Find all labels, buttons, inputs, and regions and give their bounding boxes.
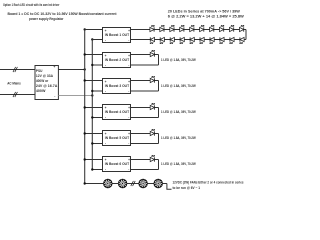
svg-text:1 LED @ 1.8A, 39V, 70.2W: 1 LED @ 1.8A, 39V, 70.2W [161, 110, 196, 114]
LED D17 string row 2 [210, 37, 215, 43]
LED D14 string row 2 [180, 37, 185, 43]
svg-text:+: + [105, 132, 107, 136]
LED D8 string row 1 [220, 25, 225, 31]
svg-text:1 LED @ 1.8A, 39V, 70.2W: 1 LED @ 1.8A, 39V, 70.2W [161, 136, 196, 140]
boost converter U6 box [103, 157, 131, 172]
boost converter U4 box [103, 105, 131, 120]
LED D1 string row 1 [150, 25, 155, 31]
svg-text:-: - [105, 39, 106, 43]
svg-text:AC Mains: AC Mains [7, 81, 21, 85]
LED D5 string row 1 [190, 25, 195, 31]
svg-text:-: - [128, 116, 129, 120]
wire bus+ to fan row [85, 183, 167, 185]
svg-text:Option 1 Each LED circuit with: Option 1 Each LED circuit with its own l… [3, 3, 60, 7]
svg-text:+: + [53, 65, 55, 69]
svg-text:-: - [128, 168, 129, 172]
junction boost 4 - stub [91, 116, 93, 118]
wire bus+ stub to boost 3 IN+ [85, 80, 103, 82]
svg-text:1 LED @ 1.8A, 39V, 70.2W: 1 LED @ 1.8A, 39V, 70.2W [161, 58, 196, 62]
svg-text:+: + [105, 29, 107, 33]
boost converter U2 box [103, 53, 131, 68]
wire LED string row 2 back to boost 1 OUT- [131, 39, 247, 41]
LED D21 [150, 50, 155, 56]
junction boost 2 + stub [84, 53, 86, 55]
wire bus- stub to boost 4 IN- [92, 117, 102, 119]
LED D23 [150, 103, 155, 109]
junction boost 6 - stub [91, 168, 93, 170]
junction PSU+ on bus [84, 68, 86, 70]
LED D19 string row 2 [230, 37, 235, 43]
wire bus- stub to boost 6 IN- [92, 169, 102, 171]
LED D15 string row 2 [190, 37, 195, 43]
svg-text:+: + [105, 158, 107, 162]
svg-text:IN Boost 4 OUT: IN Boost 4 OUT [105, 110, 129, 114]
wire boost 3 OUT+ to LED [131, 80, 159, 82]
svg-text:+: + [105, 80, 107, 84]
junction boost 5 - stub [91, 142, 93, 144]
wire LED return vertical [158, 108, 160, 118]
wire PSU + output to bus [58, 69, 84, 71]
svg-text:to be run @ 6V ~ 1: to be run @ 6V ~ 1 [173, 186, 201, 190]
junction boost 3 + stub [84, 79, 86, 81]
wire LED return to boost 6 OUT- [131, 169, 159, 171]
wire boost 6 OUT+ to LED [131, 159, 159, 161]
svg-text:power supply Regulator: power supply Regulator [29, 17, 64, 21]
wire LED return vertical [158, 134, 160, 144]
junction boost 5 + stub [84, 132, 86, 134]
svg-text:-: - [128, 39, 129, 43]
svg-text:-: - [54, 94, 55, 98]
svg-text:-: - [105, 168, 106, 172]
bus + vertical line [84, 30, 86, 184]
LED D3 string row 1 [170, 25, 175, 31]
svg-text:IN Boost 1 OUT: IN Boost 1 OUT [105, 33, 129, 37]
PSU power supply box [35, 65, 58, 100]
boost converter U3 box [103, 79, 131, 94]
junction bus+ top corner [84, 28, 86, 30]
wire PSU - output to bus (gray) [58, 95, 92, 97]
svg-text:6 @ 2.2W = 13.2W + 14 @ 1.84W: 6 @ 2.2W = 13.2W + 14 @ 1.84W = 25.8W [168, 15, 245, 19]
fan M4 [154, 179, 163, 188]
wire LED return to boost 5 OUT- [131, 143, 159, 145]
svg-text:-: - [128, 64, 129, 68]
break symbol on AC top wire [13, 67, 16, 72]
junction boost 6 + stub [84, 158, 86, 160]
svg-text:12V @ 33A: 12V @ 33A [36, 74, 54, 78]
wire boost 1 OUT+ to LED string row 1 [131, 29, 247, 31]
wire LED return vertical [158, 160, 160, 170]
wire LED return to boost 4 OUT- [131, 117, 159, 119]
svg-text:+: + [128, 132, 130, 136]
fan M2 [118, 179, 127, 188]
LED D9 string row 1 [230, 25, 235, 31]
junction boost 2 - stub [91, 64, 93, 66]
wire bus+ stub to boost 1 IN+ [85, 29, 103, 31]
wire bus- stub to boost 2 IN- [92, 64, 102, 66]
svg-text:-: - [128, 142, 129, 146]
wire LED return vertical [158, 55, 160, 66]
svg-text:400W or: 400W or [36, 79, 49, 83]
junction PSU- on bus [91, 94, 93, 96]
svg-text:IN Boost 2 OUT: IN Boost 2 OUT [105, 58, 129, 62]
LED D24 [150, 129, 155, 135]
fan M1 [103, 179, 112, 188]
bus - vertical line [91, 40, 93, 170]
LED D4 string row 1 [180, 25, 185, 31]
svg-text:-: - [105, 142, 106, 146]
LED D22 [150, 76, 155, 82]
wire boost 5 OUT+ to LED [131, 133, 159, 135]
wire bus+ stub to boost 2 IN+ [85, 54, 103, 56]
svg-text:+: + [128, 106, 130, 110]
svg-text:IN Boost 5 OUT: IN Boost 5 OUT [105, 136, 129, 140]
junction boost 4 + stub [84, 106, 86, 108]
svg-text:24V @ 16.7A: 24V @ 16.7A [36, 84, 58, 88]
svg-text:400W: 400W [36, 89, 46, 93]
wire boost 2 OUT+ to LED [131, 54, 159, 56]
svg-text:+: + [105, 106, 107, 110]
svg-text:+: + [105, 54, 107, 58]
wire bus- stub to boost 5 IN- [92, 143, 102, 145]
LED D6 string row 1 [200, 25, 205, 31]
svg-text:-: - [128, 90, 129, 94]
LED D13 string row 2 [170, 37, 175, 43]
fan M3 [138, 179, 147, 188]
wire boost 4 OUT+ to LED [131, 107, 159, 109]
svg-text:IN Boost 6 OUT: IN Boost 6 OUT [105, 162, 129, 166]
wire LED return vertical [158, 81, 160, 92]
LED D12 string row 2 [160, 37, 165, 43]
wire bus- stub to boost 1 IN- [92, 39, 102, 41]
wire bus+ stub to boost 5 IN+ [85, 133, 103, 135]
svg-text:1 LED @ 1.8A, 39V, 70.2W: 1 LED @ 1.8A, 39V, 70.2W [161, 84, 196, 88]
svg-text:IN Boost 3 OUT: IN Boost 3 OUT [105, 84, 129, 88]
wire fan row end step [167, 184, 172, 190]
LED D10 string row 1 [240, 25, 245, 31]
LED D18 string row 2 [220, 37, 225, 43]
LED D11 string row 2 [150, 37, 155, 43]
junction boost 3 - stub [91, 90, 93, 92]
junction bus- top corner [91, 38, 93, 40]
LED D20 string row 2 [240, 37, 245, 43]
boost converter U1 box [103, 28, 131, 43]
wire bus- stub to boost 3 IN- [92, 90, 102, 92]
wire LED return to boost 3 OUT- [131, 90, 159, 92]
svg-text:PSU: PSU [36, 69, 43, 73]
svg-text:+: + [128, 54, 130, 58]
junction fan row on bus [84, 182, 86, 184]
svg-text:+: + [128, 80, 130, 84]
svg-text:-: - [105, 116, 106, 120]
LED D2 string row 1 [160, 25, 165, 31]
svg-text:+: + [128, 158, 130, 162]
LED D7 string row 1 [210, 25, 215, 31]
LED D25 [150, 155, 155, 161]
break symbol between fans [131, 181, 134, 186]
svg-text:-: - [105, 90, 106, 94]
wire bus+ stub to boost 6 IN+ [85, 159, 103, 161]
break symbol on AC bottom wire [13, 92, 16, 97]
svg-text:Board 1 = DC to DC 10-32V to 1: Board 1 = DC to DC 10-32V to 10-56V 150W… [8, 12, 118, 16]
boost converter U5 box [103, 131, 131, 146]
wire LED return to boost 2 OUT- [131, 64, 159, 66]
wire AC mains line top [0, 69, 35, 71]
svg-text:20 LEDs in Series at 700mA ->: 20 LEDs in Series at 700mA -> 56V / 39W [168, 10, 241, 14]
svg-text:12VDC (2W) FANs Either 2 or 4: 12VDC (2W) FANs Either 2 or 4 connected … [173, 181, 244, 185]
LED D16 string row 2 [200, 37, 205, 43]
wire LED string wrap right vertical [245, 30, 247, 40]
svg-text:1 LED @ 1.8A, 39V, 70.2W: 1 LED @ 1.8A, 39V, 70.2W [161, 162, 196, 166]
svg-text:+: + [128, 29, 130, 33]
wire AC mains line bottom [0, 94, 35, 96]
svg-text:-: - [105, 64, 106, 68]
wire bus+ stub to boost 4 IN+ [85, 107, 103, 109]
